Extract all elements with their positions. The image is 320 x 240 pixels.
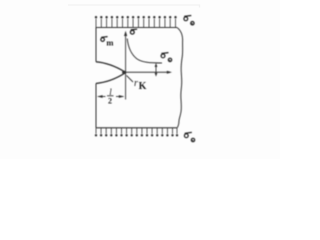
dimension line right arrow — [119, 95, 125, 98]
sigma axis vertical line — [125, 36, 127, 100]
rK leader line — [127, 76, 134, 83]
svg-text:m: m — [106, 38, 113, 48]
label sigma-infinity top right — [184, 17, 188, 21]
sigma-infinity gap double arrow — [155, 66, 157, 74]
svg-text:r: r — [134, 78, 138, 89]
plate left edge upper segment — [95, 28, 97, 62]
fraction bar of l/2 — [107, 95, 114, 97]
label sigma on vertical axis — [130, 30, 134, 34]
label sigma-infinity bottom right — [184, 134, 188, 138]
top boundary load arrows — [95, 16, 177, 28]
plate left edge lower segment — [95, 83, 97, 127]
crack notch upper lip — [96, 62, 125, 72]
stress distribution curve — [127, 39, 162, 64]
plate right torn edge — [177, 28, 183, 128]
sigma axis arrowhead — [124, 31, 127, 36]
bottom boundary load arrows — [95, 128, 178, 137]
x axis arrowhead — [167, 71, 172, 74]
label sigma_m — [101, 38, 105, 42]
plate bottom edge — [96, 127, 178, 129]
svg-text:K: K — [139, 81, 147, 92]
dimension line left arrow — [97, 95, 103, 98]
plate top edge — [96, 27, 177, 29]
crack notch lower lip — [96, 73, 125, 83]
label sigma-infinity at curve asymptote — [161, 54, 165, 58]
svg-text:2: 2 — [108, 97, 112, 106]
faint scan artifact line top — [68, 5, 200, 8]
x axis line from crack tip — [126, 71, 169, 73]
crack tip dot — [122, 71, 126, 74]
